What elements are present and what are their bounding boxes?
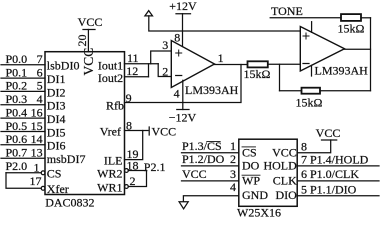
svg-text:−12V: −12V <box>169 110 197 124</box>
node P0.5 <box>6 119 43 133</box>
wire to op-amp pin 2 <box>158 64 171 77</box>
svg-text:16: 16 <box>31 105 43 119</box>
op-amp U2A LM393AH triangle <box>171 41 214 88</box>
wire Iout2 (pin 12) <box>125 76 149 78</box>
pin WR1 inverting circle <box>125 185 129 189</box>
svg-text:W25X16: W25X16 <box>237 206 281 220</box>
svg-text:P0.5: P0.5 <box>6 119 28 133</box>
svg-text:VCC: VCC <box>81 48 96 76</box>
op-amp power pin tick (bottom) <box>311 65 313 76</box>
wire VCC to pin 3 <box>182 180 239 182</box>
svg-text:WR2: WR2 <box>97 167 122 181</box>
svg-text:5: 5 <box>37 79 43 93</box>
wire P0.3 to pin 4 <box>1 104 45 106</box>
svg-text:VCC: VCC <box>182 167 207 181</box>
wire P1.3/CS to pin 1 <box>182 152 239 154</box>
op-amp minus input symbol <box>176 75 182 77</box>
svg-text:7 P1.4/HOLD: 7 P1.4/HOLD <box>301 152 369 166</box>
svg-text:P0.2: P0.2 <box>6 79 28 93</box>
+12V supply <box>169 0 197 14</box>
input arrow connector <box>145 11 153 16</box>
wire P0.4 to pin 16 <box>1 117 45 119</box>
svg-text:P0.4: P0.4 <box>6 105 28 119</box>
node P2.0 <box>6 159 40 174</box>
op-amp plus input symbol <box>303 33 309 39</box>
wire pin 4 to ground <box>183 196 238 202</box>
node VCC (W25X16 pin 3) <box>182 167 236 181</box>
wire feedback bottom right <box>320 90 371 92</box>
wire op-amp 2 output <box>345 48 371 50</box>
VCC supply (top of DAC) <box>78 15 103 52</box>
svg-text:VCC: VCC <box>152 125 177 139</box>
svg-text:14: 14 <box>31 132 43 146</box>
svg-text:DI6: DI6 <box>47 139 66 153</box>
wire ILE loop to Vref <box>125 131 143 160</box>
W25X16 U3 chip body <box>239 139 297 206</box>
svg-text:LM393AH: LM393AH <box>315 63 369 77</box>
svg-text:3: 3 <box>162 38 168 52</box>
wire P0.5 to pin 15 <box>1 131 45 133</box>
wire pin 5 <box>297 195 379 197</box>
wire feedback bottom left <box>280 90 302 92</box>
svg-text:Iout2: Iout2 <box>98 71 123 85</box>
op-amp U2B LM393AH triangle <box>300 27 344 72</box>
wire feedback left vertical <box>279 64 281 90</box>
svg-text:DO: DO <box>242 159 260 173</box>
-12V supply <box>169 110 197 125</box>
node P0.1 <box>6 65 43 79</box>
svg-text:VCC: VCC <box>316 126 341 140</box>
wire output right vertical <box>370 18 372 91</box>
svg-text:CLK: CLK <box>273 174 297 188</box>
wire Vref to VCC <box>125 130 149 132</box>
node P1.3/CS <box>182 139 236 153</box>
DAC0832 U1 chip body <box>45 52 125 195</box>
wire P2.0 loop to pin 17 (Xfer) <box>6 173 41 189</box>
svg-text:6: 6 <box>37 65 43 79</box>
pin Xfer inverting circle <box>41 186 45 190</box>
wire P1.2/DO to pin 2 <box>182 165 239 167</box>
svg-text:4: 4 <box>230 180 236 194</box>
node P0.3 <box>6 92 43 106</box>
svg-text:WP: WP <box>242 174 260 188</box>
wire WR2 (pin 18) <box>128 170 146 172</box>
svg-text:5 P1.1/DIO: 5 P1.1/DIO <box>301 182 357 196</box>
node P0.2 <box>6 79 43 93</box>
svg-text:4: 4 <box>37 92 43 106</box>
svg-text:ILE: ILE <box>104 153 123 167</box>
wire P0.0 to pin 7 <box>1 64 45 66</box>
svg-text:P0.1: P0.1 <box>6 65 28 79</box>
svg-text:15kΩ: 15kΩ <box>244 67 271 81</box>
wire pin 8 to VCC <box>297 140 331 153</box>
wire P2.0 to pin 1 (CS) <box>6 172 41 174</box>
svg-text:4: 4 <box>174 87 180 101</box>
svg-text:DI3: DI3 <box>47 99 66 113</box>
node P0.0 <box>6 52 43 66</box>
svg-text:1: 1 <box>230 139 236 153</box>
wire WR1 loop to WR2 <box>128 171 146 187</box>
VCC terminal tick <box>148 127 150 135</box>
wire R1 to op-amp 2 minus input <box>268 63 301 65</box>
wire pin 6 <box>297 180 379 182</box>
wire R3 to output node <box>361 17 371 19</box>
svg-text:7: 7 <box>37 52 43 66</box>
svg-text:Rfb: Rfb <box>106 98 124 112</box>
pin WR2 inverting circle <box>125 169 129 173</box>
wire P0.6 to pin 14 <box>1 144 45 146</box>
svg-text:2: 2 <box>162 64 168 78</box>
svg-text:WR1: WR1 <box>97 180 122 194</box>
svg-text:DI2: DI2 <box>47 85 66 99</box>
svg-text:15: 15 <box>31 119 43 133</box>
svg-text:12: 12 <box>126 64 138 78</box>
pin WP label (inside W25X16, overlined) <box>242 174 260 188</box>
svg-text:2: 2 <box>230 152 236 166</box>
resistor R3 15k (TONE) <box>341 14 361 21</box>
wire to op-amp pin 3 <box>151 51 172 64</box>
node P1.2/DO <box>182 152 236 166</box>
svg-text:8: 8 <box>301 139 307 153</box>
svg-text:+12V: +12V <box>169 0 197 13</box>
node P0.6 <box>6 132 43 146</box>
svg-text:VCC: VCC <box>272 145 297 159</box>
svg-text:1: 1 <box>218 51 224 65</box>
op-amp minus input symbol <box>303 63 309 65</box>
node P0.4 <box>6 105 43 119</box>
svg-text:VCC: VCC <box>78 15 103 29</box>
svg-text:15kΩ: 15kΩ <box>338 21 365 35</box>
svg-text:Vref: Vref <box>100 125 121 139</box>
svg-text:P0.7: P0.7 <box>6 146 28 160</box>
svg-text:P1.3/CS: P1.3/CS <box>182 139 222 153</box>
resistor R1 15k <box>248 61 268 67</box>
op-amp plus input symbol <box>176 50 182 56</box>
wire junction Iout2 to Iout1 <box>148 64 150 77</box>
wire pin 7 <box>297 165 379 167</box>
svg-text:P1.2/DO: P1.2/DO <box>182 152 225 166</box>
svg-text:15kΩ: 15kΩ <box>296 95 323 109</box>
svg-text:TONE: TONE <box>271 4 303 18</box>
svg-text:11: 11 <box>127 51 139 65</box>
svg-text:8: 8 <box>174 31 180 45</box>
svg-text:17: 17 <box>30 174 42 188</box>
svg-text:6 P1.0/CLK: 6 P1.0/CLK <box>301 167 359 181</box>
svg-text:P2.0: P2.0 <box>6 159 28 173</box>
svg-text:GND: GND <box>242 188 268 202</box>
wire pin 8 to +12V <box>182 14 184 47</box>
svg-text:CS: CS <box>242 145 257 159</box>
ground <box>179 202 188 209</box>
svg-text:DAC0832: DAC0832 <box>45 195 94 209</box>
op-amp power pin tick (top) <box>311 22 313 33</box>
svg-text:DI4: DI4 <box>47 112 66 126</box>
node P0.7 <box>6 146 43 160</box>
resistor R2 15k (feedback) <box>302 88 321 94</box>
svg-text:Xfer: Xfer <box>47 182 69 196</box>
svg-text:DIO: DIO <box>275 188 297 202</box>
svg-text:CS: CS <box>47 166 62 180</box>
wire Rfb to op-amp output <box>125 65 242 103</box>
svg-text:HOLD: HOLD <box>263 159 297 173</box>
wire op-amp output <box>215 64 248 66</box>
svg-text:20: 20 <box>75 35 89 47</box>
pin CS inverting circle <box>41 171 45 175</box>
wire Iout1 (pin 11) <box>125 63 159 65</box>
VCC supply (right of W25X16) <box>316 126 341 140</box>
svg-text:DI1: DI1 <box>47 72 66 86</box>
wire pin 4 to -12V <box>182 80 184 109</box>
wire arrow to op-amp 2 plus input <box>149 16 300 31</box>
svg-text:13: 13 <box>31 146 43 160</box>
pin CS label (inside W25X16, overlined) <box>242 145 257 159</box>
svg-text:P0.3: P0.3 <box>6 92 28 106</box>
svg-text:LM393AH: LM393AH <box>185 83 239 97</box>
svg-text:msbDI7: msbDI7 <box>47 152 86 166</box>
wire TONE line <box>270 17 341 19</box>
svg-text:P0.0: P0.0 <box>6 52 28 66</box>
wire P0.2 to pin 5 <box>1 90 45 92</box>
wire P0.1 to pin 6 <box>1 77 45 79</box>
wire P0.7 to pin 13 <box>1 157 45 159</box>
svg-text:lsbDI0: lsbDI0 <box>47 59 80 73</box>
svg-text:3: 3 <box>230 167 236 181</box>
svg-text:DI5: DI5 <box>47 125 66 139</box>
svg-text:P0.6: P0.6 <box>6 132 28 146</box>
